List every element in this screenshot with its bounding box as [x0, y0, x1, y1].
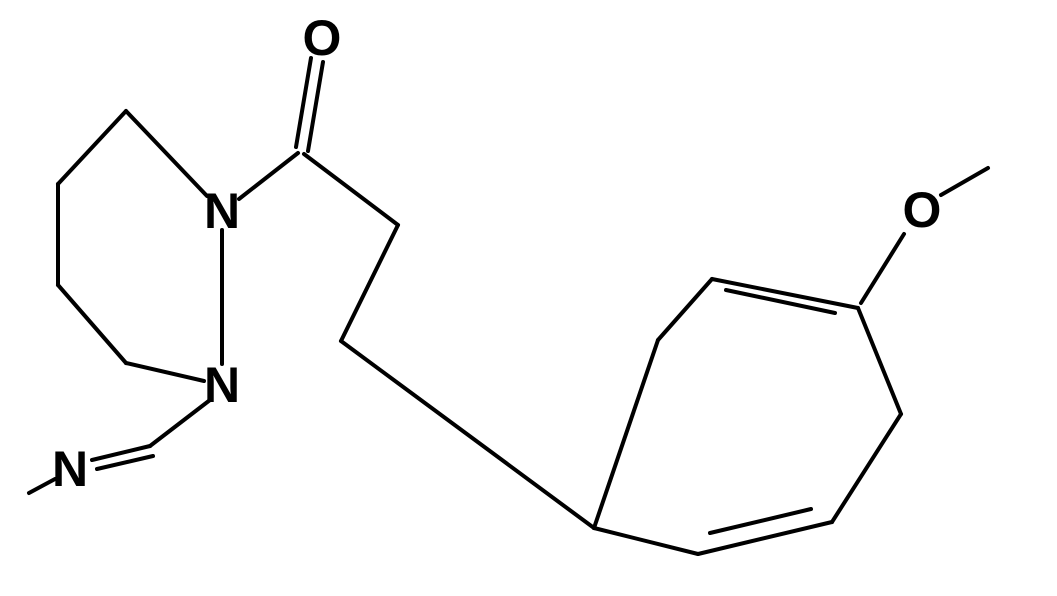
ring edge R1-R2 (top) with inner double line — [712, 279, 858, 308]
svg-text:O: O — [903, 182, 942, 238]
chain: V_f to V_g — [341, 225, 398, 341]
bond N1 to ring CH2 (V_a) — [126, 111, 207, 196]
svg-text:O: O — [303, 10, 342, 66]
svg-text:N: N — [204, 357, 240, 413]
ring edge R2-R3 (right) — [858, 308, 901, 414]
ring edge R7-R1 — [658, 279, 712, 340]
bond R2 to methoxy O — [861, 234, 904, 303]
ring edge R4-R5 (bottom) with inner double line — [698, 522, 832, 554]
chain: V_g to ring R6 (long bond) — [341, 341, 594, 528]
svg-text:N: N — [204, 183, 240, 239]
bond N1 to N2 vertical (amidine chain) — [220, 230, 224, 364]
ketone C=O double bond — [296, 58, 323, 151]
bond N2 to amidine C (V_e) — [150, 400, 210, 446]
ring edge R5-R6 — [594, 528, 698, 554]
chain: carbonyl-C to CH2 (V_f) — [304, 154, 398, 225]
svg-text:N: N — [52, 441, 88, 497]
ring edge R6-R7 (steep left) — [594, 340, 658, 528]
bond V_d to N2 — [126, 363, 204, 381]
bond V_b to V_c vertical — [56, 184, 60, 285]
ring edge R3-R4 — [832, 414, 901, 522]
C=N3 double bond — [92, 446, 153, 469]
bond V_c to V_d — [58, 285, 126, 363]
bond N3 to methyl — [29, 479, 55, 493]
bond V_a to V_b — [58, 111, 126, 184]
bond O to methyl — [941, 168, 988, 195]
bond carbonyl-C to N1 — [239, 153, 298, 199]
